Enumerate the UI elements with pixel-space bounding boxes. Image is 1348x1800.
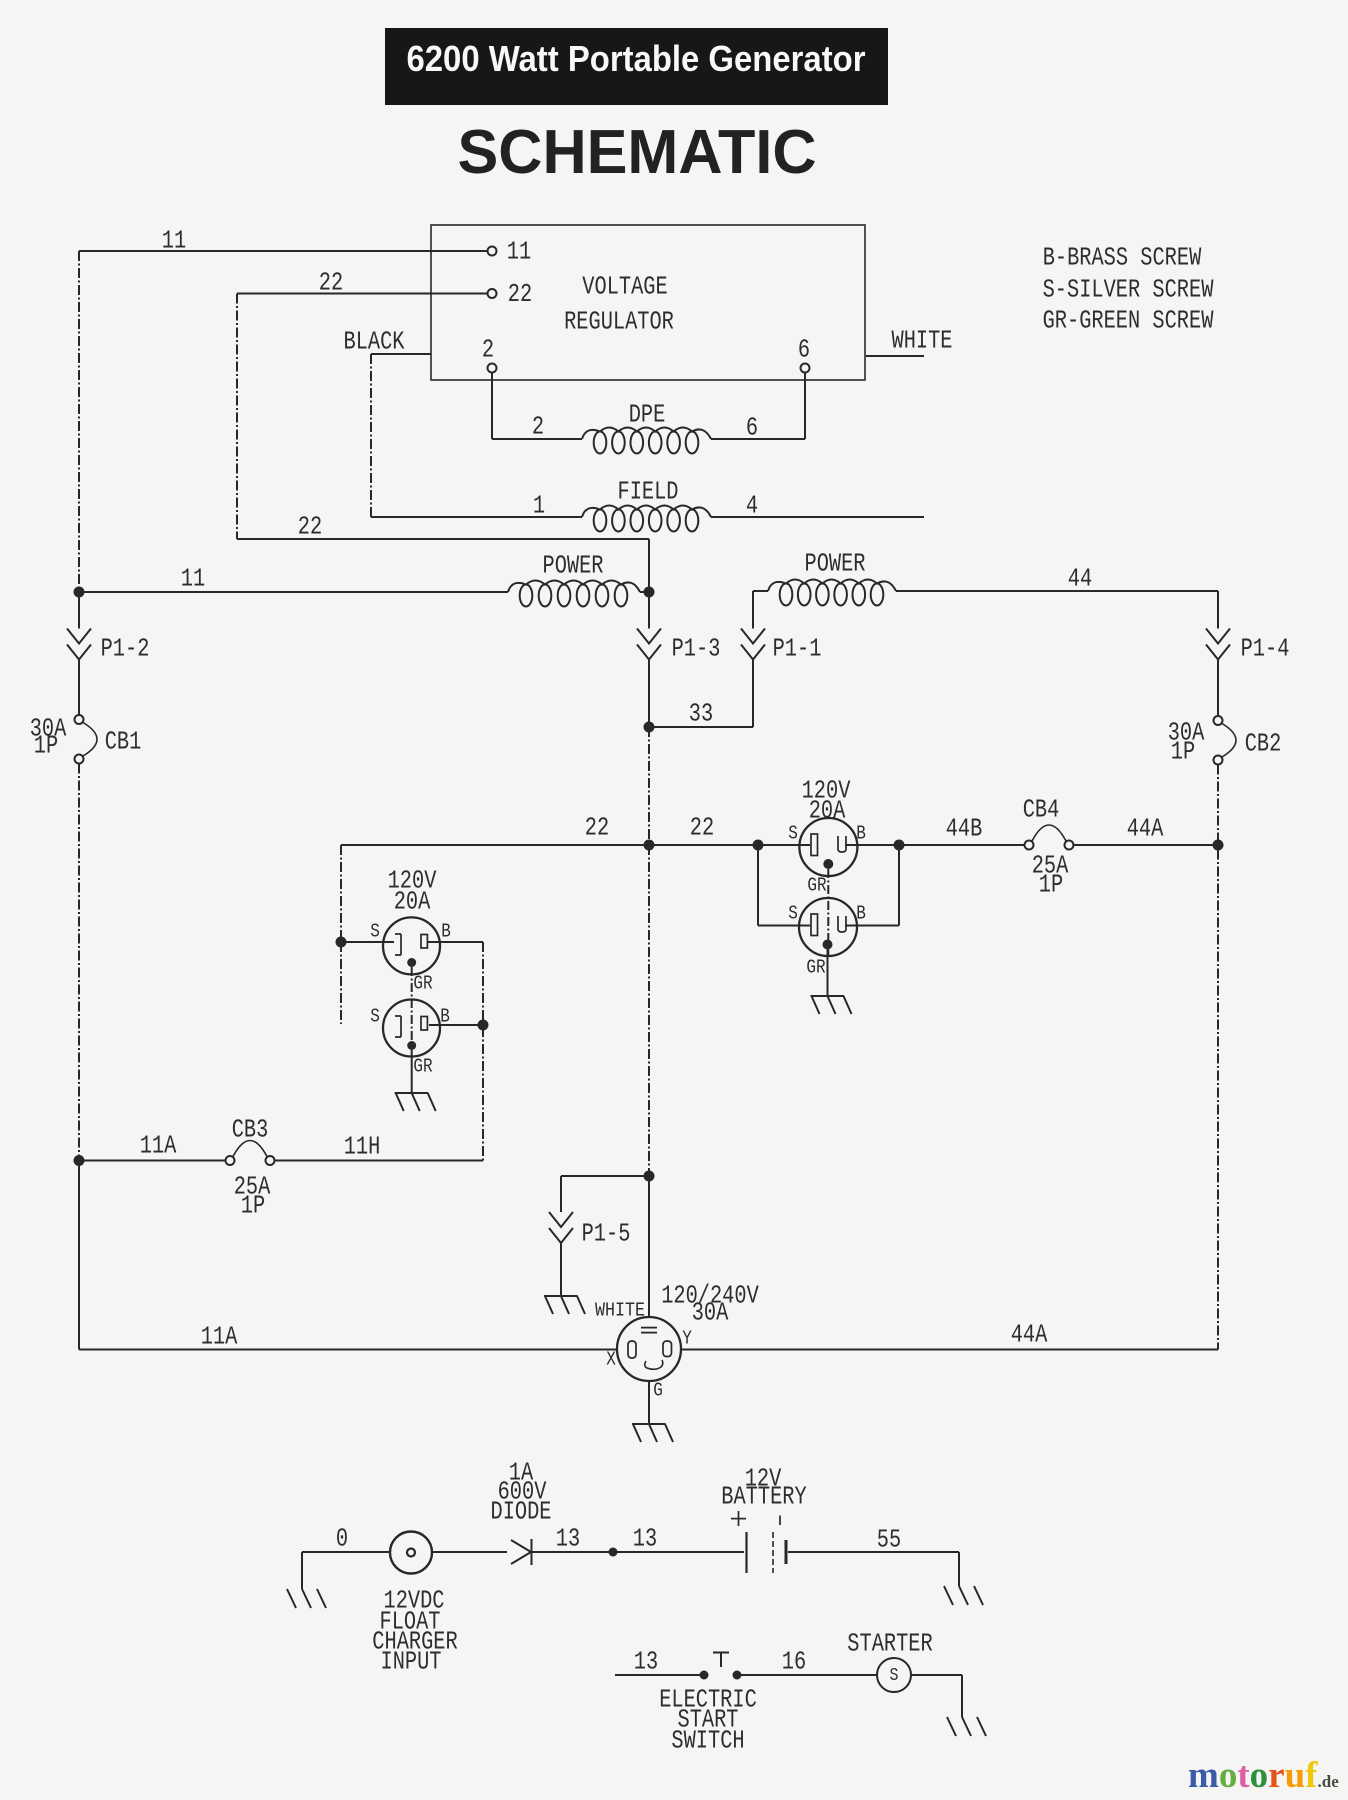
outlet G slot (645, 1360, 663, 1369)
svg-text:DIODE: DIODE (491, 1496, 552, 1526)
receptacle R2 body (799, 898, 857, 956)
wire left rail mid (78, 764, 80, 1161)
svg-text:13: 13 (556, 1523, 580, 1553)
battery minus tick (779, 1516, 781, 1526)
svg-text:1: 1 (533, 490, 545, 520)
connector P1-4 (1206, 629, 1230, 644)
wire battery corner down (958, 1552, 960, 1586)
outlet W slot (641, 1327, 657, 1329)
ground below P1-5 (544, 1295, 578, 1297)
wire P1-1 upper (752, 591, 754, 629)
wire dpe left lead (492, 438, 582, 440)
svg-text:22: 22 (690, 812, 714, 842)
svg-text:11H: 11H (344, 1131, 381, 1161)
wire right vertical 11H (482, 942, 484, 1161)
receptacle R4 neutral slot (395, 1016, 401, 1037)
wire terminal2 down (491, 373, 493, 439)
svg-text:REGULATOR: REGULATOR (564, 306, 674, 336)
node 22 center (644, 840, 655, 851)
svg-text:STARTER: STARTER (847, 1628, 932, 1658)
wire right rail lower (1217, 765, 1219, 1350)
node R3 (336, 937, 347, 948)
wire R2 ground lead (827, 950, 829, 997)
ground below outlet (632, 1423, 666, 1425)
charger jack body (390, 1532, 432, 1574)
svg-text:VOLTAGE: VOLTAGE (582, 271, 667, 301)
wire BLACK stub (371, 353, 431, 355)
wire 44B (899, 844, 1025, 846)
svg-text:20A: 20A (394, 886, 431, 916)
title banner (385, 28, 888, 105)
wire bottom 11A (79, 1349, 617, 1351)
svg-text:44A: 44A (1011, 1319, 1048, 1349)
wire R2 left drop (757, 845, 759, 926)
electric start switch S1 (700, 1671, 709, 1680)
svg-text:33: 33 (689, 698, 713, 728)
svg-text:POWER: POWER (805, 548, 866, 578)
svg-text:B: B (856, 902, 866, 924)
svg-text:44B: 44B (946, 813, 983, 843)
wire 11A (79, 1160, 225, 1162)
wire R1 ground to R2 (827, 869, 829, 956)
svg-text:S-SILVER SCREW: S-SILVER SCREW (1043, 274, 1214, 304)
ground charger (287, 1589, 296, 1608)
wire R2 right drop (898, 845, 900, 926)
svg-text:BLACK: BLACK (344, 326, 405, 356)
ground below R4 (395, 1092, 429, 1094)
svg-text:30A: 30A (692, 1297, 729, 1327)
wire BLACK vertical (370, 354, 372, 517)
wire R4 stub (340, 942, 342, 1024)
wire R3 ground to R4 (411, 967, 413, 1041)
node 11 left (74, 587, 85, 598)
wire P1-2 lower (78, 660, 80, 715)
wire P1-5 lower (560, 1244, 562, 1297)
wire center rail to 22 node (648, 727, 650, 845)
svg-text:G: G (653, 1379, 663, 1401)
svg-text:16: 16 (782, 1646, 806, 1676)
svg-text:6200 Watt Portable Generator: 6200 Watt Portable Generator (407, 38, 866, 79)
ground below R2 (811, 995, 845, 997)
regulator terminal 6 (801, 364, 810, 373)
receptacle R4 ground pin (407, 1041, 416, 1050)
wire P1-5 upper (560, 1176, 562, 1212)
wire coil to node (640, 591, 649, 593)
receptacle R3 body (383, 917, 440, 974)
receptacle R3 hot slot (421, 935, 427, 949)
wire R3 hot lead (428, 941, 483, 943)
wire outlet R1 to node (845, 844, 899, 846)
svg-text:P1-2: P1-2 (101, 633, 150, 663)
receptacle R4 hot slot (421, 1017, 427, 1031)
node neutral branch (644, 1171, 655, 1182)
wire 22 vertical (236, 294, 238, 540)
wire battery to corner (788, 1551, 959, 1553)
svg-text:CB2: CB2 (1245, 728, 1282, 758)
wire charger to diode (432, 1551, 507, 1553)
wire charger corner (301, 1552, 303, 1589)
twist-lock outlet body (617, 1317, 681, 1381)
svg-text:S: S (370, 920, 380, 942)
svg-text:GR-GREEN SCREW: GR-GREEN SCREW (1043, 305, 1214, 335)
svg-text:1P: 1P (241, 1190, 265, 1220)
svg-text:2: 2 (532, 411, 544, 441)
wire switch lead (615, 1674, 704, 1676)
svg-text:GR: GR (807, 874, 826, 896)
svg-text:motoruf.de: motoruf.de (1188, 1755, 1339, 1796)
receptacle R1 neutral slot (811, 834, 818, 856)
wire 44 (896, 590, 1218, 592)
regulator terminal 2 (488, 364, 497, 373)
svg-text:GR: GR (413, 1055, 432, 1077)
wire coil2 left lead (753, 590, 768, 592)
receptacle R2 hot slot (838, 916, 846, 932)
wire field left lead (371, 516, 582, 518)
svg-text:S: S (788, 822, 798, 844)
wire node to battery (613, 1551, 744, 1553)
svg-text:13: 13 (634, 1646, 658, 1676)
field coil (582, 506, 711, 518)
starter M1 (877, 1658, 911, 1692)
node 33 (644, 722, 655, 733)
node power junction (644, 587, 655, 598)
outlet Y slot (663, 1341, 672, 1357)
wire starter corner (961, 1675, 963, 1717)
voltage regulator U1 box (431, 225, 865, 380)
svg-text:6: 6 (746, 412, 758, 442)
battery plus label (731, 1518, 746, 1520)
svg-text:11A: 11A (201, 1321, 238, 1351)
circuit breaker CB3 (226, 1156, 235, 1165)
regulator terminal 11 (488, 247, 497, 256)
svg-text:44A: 44A (1127, 813, 1164, 843)
wire to outlet R1 (758, 844, 810, 846)
svg-text:B: B (856, 822, 866, 844)
node outlet right (894, 840, 905, 851)
svg-text:11: 11 (507, 236, 531, 266)
svg-text:P1-1: P1-1 (773, 633, 822, 663)
battery BT1 (745, 1532, 747, 1573)
wire 22 down to node (648, 539, 650, 592)
svg-text:POWER: POWER (543, 550, 604, 580)
wire terminal6 up (804, 373, 806, 439)
svg-text:S: S (890, 1666, 899, 1686)
svg-text:11A: 11A (140, 1130, 177, 1160)
circuit breaker CB2 (1214, 716, 1223, 725)
svg-text:22: 22 (298, 511, 322, 541)
wire 11H (275, 1160, 484, 1162)
svg-text:1P: 1P (1171, 736, 1195, 766)
wire 11 regulator to left rail (79, 250, 487, 252)
ground battery (944, 1586, 953, 1605)
receptacle R1 body (799, 818, 857, 876)
svg-text:X: X (606, 1348, 616, 1370)
svg-text:Y: Y (682, 1327, 692, 1349)
wire left rail bottom (78, 1161, 80, 1350)
wire WHITE stub (866, 355, 924, 357)
diode D1 (511, 1540, 531, 1552)
svg-text:B-BRASS SCREW: B-BRASS SCREW (1043, 242, 1202, 272)
svg-text:BATTERY: BATTERY (721, 1481, 807, 1511)
receptacle R1 hot slot (838, 836, 846, 852)
receptacle R3 neutral slot (395, 934, 401, 955)
wire neutral rail (648, 845, 650, 1176)
wire bottom 44A (681, 1349, 1218, 1351)
power coil 2 (768, 580, 896, 592)
wire 22 from regulator (237, 293, 487, 295)
receptacle R2 neutral slot (811, 914, 818, 936)
svg-text:6: 6 (798, 334, 810, 364)
svg-text:CB1: CB1 (105, 726, 142, 756)
ground starter (947, 1717, 956, 1736)
svg-text:GR: GR (413, 972, 432, 994)
svg-text:22: 22 (585, 812, 609, 842)
connector P1-3 (637, 629, 661, 644)
connector P1-5 (549, 1212, 573, 1227)
svg-text:13: 13 (633, 1523, 657, 1553)
circuit breaker CB1 (75, 715, 84, 724)
wire diode to node (532, 1551, 614, 1553)
wire dpe right lead (711, 438, 805, 440)
svg-text:11: 11 (162, 225, 186, 255)
connector P1-2 (67, 629, 91, 644)
wire 22 bus right (649, 844, 758, 846)
svg-text:44: 44 (1068, 563, 1092, 593)
svg-text:P1-5: P1-5 (582, 1218, 631, 1248)
svg-text:22: 22 (508, 279, 532, 309)
svg-text:B: B (441, 920, 451, 942)
wire 22 bus left (341, 844, 649, 846)
charger jack pin (407, 1549, 415, 1557)
regulator terminal 22 (488, 289, 497, 298)
svg-text:P1-4: P1-4 (1241, 633, 1290, 663)
wire 11 bus (79, 591, 508, 593)
wire R4 hot lead (429, 1024, 483, 1026)
svg-text:22: 22 (319, 267, 343, 297)
wire left rail upper (78, 251, 80, 592)
svg-text:P1-3: P1-3 (672, 633, 721, 663)
wire P1-1 lower (752, 660, 754, 727)
wire outlet ground (648, 1381, 650, 1424)
wire 33 (649, 726, 753, 728)
node 13 (609, 1548, 618, 1557)
svg-text:GR: GR (806, 956, 825, 978)
svg-text:1P: 1P (1039, 869, 1063, 899)
wire P1-2 upper (78, 592, 80, 629)
svg-text:CB4: CB4 (1023, 794, 1060, 824)
wire starter out (911, 1674, 962, 1676)
node left rail 11A (74, 1155, 85, 1166)
circuit breaker CB4 (1025, 841, 1034, 850)
receptacle R4 body (383, 1000, 440, 1057)
svg-text:0: 0 (336, 1523, 348, 1553)
receptacle R1 ground pin (823, 859, 833, 869)
wire R4 ground lead (411, 1050, 413, 1093)
svg-text:DPE: DPE (629, 399, 666, 429)
dpe coil (582, 428, 711, 440)
node R4 hot (478, 1020, 489, 1031)
wire CB4 to rail (1074, 844, 1219, 846)
svg-text:SCHEMATIC: SCHEMATIC (458, 118, 817, 187)
svg-text:4: 4 (746, 490, 758, 520)
power coil 1 (508, 581, 640, 593)
wire left drop to R3 (340, 845, 342, 942)
svg-text:2: 2 (482, 334, 494, 364)
svg-text:CB3: CB3 (232, 1114, 269, 1144)
svg-text:SWITCH: SWITCH (671, 1725, 744, 1755)
wire charger lead (302, 1551, 390, 1553)
node outlet left (753, 840, 764, 851)
svg-text:FIELD: FIELD (618, 476, 679, 506)
wire switch to starter (737, 1674, 877, 1676)
receptacle R2 ground pin (823, 940, 833, 950)
svg-text:55: 55 (877, 1524, 901, 1554)
svg-text:WHITE: WHITE (892, 325, 953, 355)
receptacle R3 ground pin (407, 958, 416, 967)
svg-text:INPUT: INPUT (381, 1646, 442, 1676)
wire to R3 neutral (341, 941, 394, 943)
wire neutral to P1-5 (561, 1175, 649, 1177)
svg-text:11: 11 (181, 563, 205, 593)
connector P1-1 (741, 629, 765, 644)
svg-text:1P: 1P (34, 730, 58, 760)
node 44A rail (1213, 840, 1224, 851)
wire P1-4 lower (1217, 660, 1219, 716)
wire P1-3 lower (648, 660, 650, 727)
wire field right lead (711, 516, 924, 518)
wire P1-4 upper (1217, 591, 1219, 629)
svg-text:S: S (788, 902, 798, 924)
outlet X slot (628, 1341, 636, 1358)
wire neutral to outlet (648, 1176, 650, 1317)
svg-text:S: S (370, 1005, 380, 1027)
wire 22 horizontal (237, 538, 649, 540)
wire P1-3 upper (648, 592, 650, 629)
